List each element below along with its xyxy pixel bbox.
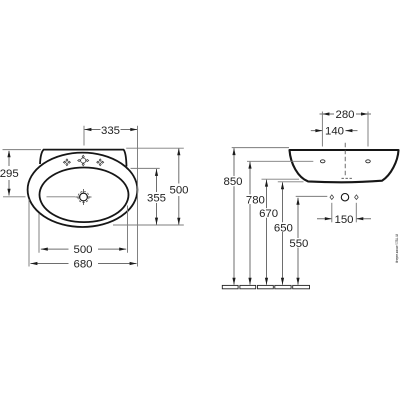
extension line 500/355 bottom (113, 224, 184, 226)
dim 850 (223, 148, 242, 285)
svg-text:550: 550 (289, 238, 308, 250)
faucet hole symbol left (63, 159, 70, 166)
extension line 295 top (3, 149, 42, 151)
dim 150 (317, 214, 371, 226)
extension line 280 left (321, 112, 323, 147)
extension line 500 top (126, 147, 184, 149)
dim 500 bottom (41, 244, 126, 256)
extension line 500 bottom left (38, 214, 40, 253)
basin side profile (290, 150, 399, 182)
svg-text:355: 355 (147, 193, 166, 205)
drain circle (side view) (341, 194, 348, 201)
dim 780 (246, 162, 265, 285)
extension line 150 left (331, 203, 333, 223)
svg-text:140: 140 (325, 126, 344, 138)
basin outer oval (28, 153, 138, 227)
centerline left segment (3, 196, 26, 198)
svg-text:335: 335 (101, 125, 120, 137)
fixing hole right diamond (355, 195, 359, 200)
extension line 680 left (28, 200, 30, 267)
floor tiles (222, 285, 309, 288)
extension line 650 (278, 181, 304, 183)
extension line 335 left (83, 126, 85, 146)
tap hole right (side view) (366, 160, 371, 163)
extension line 355 top (131, 167, 160, 169)
dim 140 (311, 126, 358, 138)
extension line 780 (247, 160, 313, 162)
basin back ledge (40, 150, 127, 167)
dim 280 (320, 109, 372, 121)
svg-text:500: 500 (169, 185, 188, 197)
extension line 150 right (355, 203, 357, 223)
dim 335 (84, 125, 137, 137)
svg-text:280: 280 (335, 109, 354, 121)
svg-text:650: 650 (274, 222, 293, 234)
drain symbol (76, 189, 92, 205)
faucet hole symbol center (78, 155, 89, 166)
svg-text:780: 780 (246, 194, 265, 206)
drain dashes (342, 177, 353, 179)
extension line right long (137, 126, 139, 267)
faucet hole symbol right (97, 159, 104, 166)
dim 550 (289, 198, 308, 285)
centerline inner segment (47, 196, 76, 198)
svg-text:Интернет-магазин S-TELL.UA: Интернет-магазин S-TELL.UA (395, 234, 399, 263)
basin inner bowl oval (40, 168, 129, 223)
extension line 850 (232, 147, 289, 149)
svg-text:150: 150 (334, 214, 353, 226)
svg-text:680: 680 (73, 259, 92, 271)
extension line 500 bottom right (127, 206, 129, 253)
dim 355 (147, 169, 166, 225)
dim 295 (0, 150, 19, 196)
dim 670 (259, 180, 278, 285)
svg-text:850: 850 (223, 176, 242, 188)
svg-text:670: 670 (259, 208, 278, 220)
svg-text:295: 295 (0, 168, 19, 180)
tap hole left (side view) (320, 160, 325, 163)
extension line 550 (296, 195, 328, 197)
dashed centerline (344, 143, 346, 177)
svg-text:500: 500 (73, 244, 92, 256)
extension line 670 (262, 178, 300, 180)
dim 500 right vertical (169, 148, 188, 225)
dim 650 (274, 182, 293, 285)
extension line 280 right (367, 112, 369, 147)
dim 680 (30, 259, 136, 271)
fixing hole left diamond (330, 195, 334, 200)
